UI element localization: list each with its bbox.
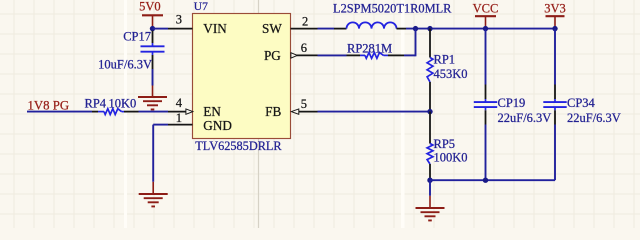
svg-text:22uF/6.3V: 22uF/6.3V <box>567 111 621 125</box>
ground below RP5 <box>416 196 445 221</box>
wire CP17 to ground <box>152 69 154 86</box>
svg-text:CP34: CP34 <box>567 96 596 110</box>
junction dot CP19 bottom <box>483 178 488 183</box>
svg-text:TLV62585DRLR: TLV62585DRLR <box>195 139 282 153</box>
resistor RP4 10K0 <box>85 96 139 114</box>
pin 6 PG <box>264 41 318 63</box>
wire RP281M to VCC rail <box>404 29 416 57</box>
capacitor CP34 22uF/6.3V <box>543 85 621 125</box>
svg-text:FB: FB <box>265 104 281 119</box>
svg-text:10uF/6.3V: 10uF/6.3V <box>98 57 152 71</box>
svg-text:5: 5 <box>301 97 307 111</box>
capacitor CP17 10uF/6.3V <box>98 30 164 72</box>
svg-text:2: 2 <box>302 14 308 28</box>
wire SW pin to inductor <box>318 28 335 30</box>
wire CP19 to bottom rail <box>485 125 487 181</box>
wire inductor to VCC rail <box>406 28 555 30</box>
pin 2 SW <box>262 14 317 35</box>
svg-text:CP17: CP17 <box>123 30 151 44</box>
svg-text:10K0: 10K0 <box>109 96 137 110</box>
svg-text:22uF/6.3V: 22uF/6.3V <box>498 111 552 125</box>
pin 4 EN <box>168 96 221 119</box>
svg-text:5V0: 5V0 <box>139 0 161 14</box>
junction dot RP1 top <box>427 26 432 31</box>
wire 5V0 node to VIN pin <box>153 28 169 30</box>
op-amp U7 TLV62585DRLR body <box>193 14 291 139</box>
pin 5 FB <box>265 97 317 119</box>
svg-text:100K0: 100K0 <box>434 151 468 165</box>
wire VCC node down to CP19 <box>485 29 487 85</box>
capacitor CP19 22uF/6.3V <box>474 85 552 125</box>
svg-text:RP281M: RP281M <box>347 41 392 55</box>
svg-text:GND: GND <box>203 118 232 133</box>
junction dot RP5 bottom <box>427 178 432 183</box>
power port 3V3 <box>544 2 566 29</box>
wire RP5 to ground <box>429 180 431 196</box>
wire GND pin to ground <box>153 125 168 182</box>
svg-text:U7: U7 <box>194 1 208 13</box>
svg-text:PG: PG <box>264 48 281 63</box>
junction dot RP281M riser <box>413 26 418 31</box>
ground below U7 GND <box>139 182 168 207</box>
resistor RP281M <box>347 41 405 58</box>
power port 5V0 <box>139 0 163 29</box>
svg-text:1V8 PG: 1V8 PG <box>28 99 70 113</box>
junction dot VCC <box>483 26 488 31</box>
ground below CP17 <box>138 86 167 110</box>
pin 3 VIN <box>168 13 227 36</box>
svg-text:RP1: RP1 <box>434 52 456 66</box>
junction dot node VIN <box>150 26 155 31</box>
wire FB pin to divider <box>318 111 431 113</box>
wire 3V3 node down to CP34 <box>554 29 556 85</box>
svg-text:RP4: RP4 <box>85 96 107 110</box>
svg-text:3V3: 3V3 <box>544 2 566 16</box>
svg-text:RP5: RP5 <box>434 137 456 151</box>
inductor L2SPM5020T1R0MLR <box>333 1 452 28</box>
svg-text:3: 3 <box>176 13 182 27</box>
svg-text:CP19: CP19 <box>498 96 526 110</box>
resistor RP5 100K0 <box>427 112 467 181</box>
junction dot FB node <box>427 109 432 114</box>
svg-text:6: 6 <box>301 41 307 55</box>
resistor RP1 453K0 <box>427 29 467 112</box>
pin 1 GND <box>168 111 232 133</box>
wire 1V8_PG to RP4 <box>27 111 92 113</box>
svg-text:EN: EN <box>203 104 221 119</box>
wire bottom ground rail <box>430 125 555 181</box>
wire RP4 to EN pin <box>139 111 169 113</box>
svg-text:4: 4 <box>176 96 183 110</box>
wire PG pin to RP281M <box>318 54 347 56</box>
svg-text:L2SPM5020T1R0MLR: L2SPM5020T1R0MLR <box>333 1 452 15</box>
power port VCC <box>473 2 499 29</box>
svg-text:SW: SW <box>262 21 282 36</box>
junction dot 3V3 <box>552 26 557 31</box>
svg-text:1: 1 <box>176 111 182 125</box>
svg-text:VIN: VIN <box>203 21 227 36</box>
svg-text:VCC: VCC <box>473 2 499 16</box>
svg-text:453K0: 453K0 <box>434 67 468 81</box>
